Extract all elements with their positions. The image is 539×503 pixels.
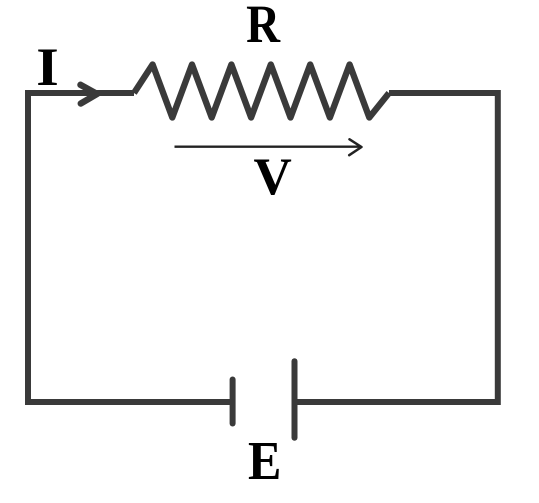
- voltage arrow V line: [175, 146, 360, 148]
- battery E positive plate (long): [292, 361, 298, 438]
- wire: top-right segment + right side down to battery: [295, 93, 498, 402]
- label V: [254, 148, 292, 206]
- label E: [248, 431, 281, 492]
- resistor R: [134, 65, 389, 118]
- current arrow I on top wire: [81, 85, 98, 104]
- label I: [36, 38, 58, 98]
- label R: [246, 0, 280, 54]
- svg-text:E: E: [248, 431, 281, 492]
- wire: left side + top-left segment to resistor: [28, 93, 134, 405]
- voltage arrow V head: [349, 139, 361, 155]
- battery E negative plate (short): [230, 380, 236, 424]
- svg-text:R: R: [246, 0, 280, 54]
- svg-text:V: V: [254, 148, 292, 206]
- svg-text:I: I: [36, 38, 58, 98]
- wire: bottom-left segment: [28, 399, 230, 405]
